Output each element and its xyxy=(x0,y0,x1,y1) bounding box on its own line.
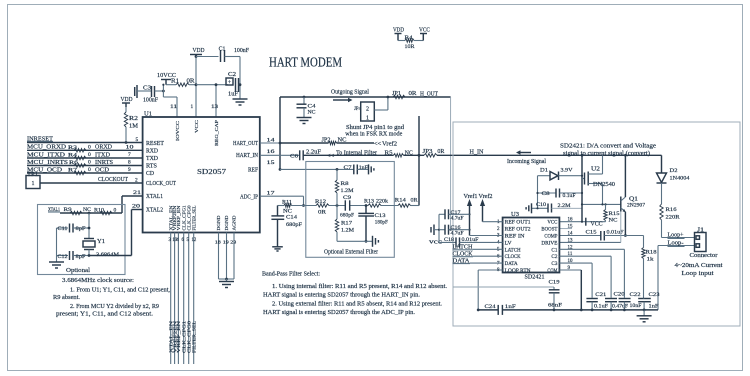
svg-text:SD2421: SD2421 xyxy=(525,275,545,281)
svg-text:Loop-: Loop- xyxy=(668,240,684,246)
wire REF row xyxy=(280,168,354,170)
svg-text:HART_IN: HART_IN xyxy=(236,153,259,159)
svg-text:100nF: 100nF xyxy=(234,48,250,54)
svg-text:Outgoing Signal: Outgoing Signal xyxy=(331,89,369,96)
svg-text:220R: 220R xyxy=(666,215,680,221)
resistor R17 1.2M xyxy=(335,206,354,242)
capacitor C1 100nF xyxy=(196,47,250,63)
op-amp U1 SD2057 (modem IC) xyxy=(143,117,260,233)
svg-text:VDD: VDD xyxy=(193,47,205,54)
svg-text:0R: 0R xyxy=(411,198,418,204)
svg-text:680pF: 680pF xyxy=(340,213,354,219)
svg-text:3.6864MHz clock source:: 3.6864MHz clock source: xyxy=(62,277,134,284)
jumper JP4 xyxy=(354,102,374,122)
svg-text:CLOCK_OUT: CLOCK_OUT xyxy=(146,181,176,187)
svg-text:10R: 10R xyxy=(405,44,415,50)
svg-text:7: 7 xyxy=(128,152,131,158)
svg-text:C24: C24 xyxy=(485,304,496,310)
svg-text:JP1: JP1 xyxy=(392,91,401,97)
wire 10VCC node to U1 pin IOVCC xyxy=(162,84,177,117)
resistor R12 0R xyxy=(315,199,329,216)
svg-text:RTS: RTS xyxy=(146,164,157,170)
svg-text:AGND: AGND xyxy=(232,216,237,231)
power flag VDD (main) xyxy=(190,47,205,57)
resistor R4 0 xyxy=(68,152,91,160)
svg-text:INRTS: INRTS xyxy=(95,159,113,166)
capacitor C11 8pF xyxy=(57,224,91,233)
node LATCH xyxy=(453,245,503,251)
wire pin9 COM column xyxy=(559,270,582,311)
svg-text:13: 13 xyxy=(568,238,574,243)
capacitor C8 0.1uF xyxy=(536,189,583,200)
capacitor C16 4.7uF xyxy=(439,225,470,237)
svg-text:8: 8 xyxy=(128,160,131,166)
svg-text:C2: C2 xyxy=(228,72,236,78)
resistor R13 220k xyxy=(364,199,388,208)
svg-text:CLOCKOUT: CLOCKOUT xyxy=(98,176,128,183)
svg-text:XTAL1: XTAL1 xyxy=(146,194,163,200)
svg-text:68nF: 68nF xyxy=(548,303,562,309)
svg-text:RXD: RXD xyxy=(146,148,158,154)
svg-text:C15: C15 xyxy=(586,230,597,236)
svg-text:2.2uF: 2.2uF xyxy=(306,149,322,155)
svg-text:C20: C20 xyxy=(614,292,625,298)
svg-text:R18: R18 xyxy=(646,250,657,256)
svg-text:C3: C3 xyxy=(551,261,557,267)
wire BOOST stub xyxy=(559,228,572,230)
svg-text:COMP: COMP xyxy=(544,234,557,240)
svg-text:0R: 0R xyxy=(437,149,444,155)
capacitor C2 1uF (polarized) xyxy=(226,72,241,98)
diode D2 1N4004 xyxy=(657,155,690,204)
capacitor C10 2.2M xyxy=(532,202,583,213)
svg-text:JP3: JP3 xyxy=(423,149,433,155)
svg-text:R2: R2 xyxy=(129,116,138,122)
crystal Y1 3.6864M xyxy=(83,213,119,258)
svg-text:1M: 1M xyxy=(129,124,138,130)
power flag 10VCC xyxy=(157,72,176,85)
capacitor C3 100nF xyxy=(135,85,165,104)
node DATA xyxy=(453,258,503,264)
note band-pass filter select xyxy=(262,271,447,317)
svg-text:FILTER_SEL: FILTER_SEL xyxy=(191,321,196,353)
svg-text:signal to current signal (conv: signal to current signal (convert) xyxy=(563,150,650,157)
svg-text:REF OUT2: REF OUT2 xyxy=(505,227,531,233)
wire decoupling ground column xyxy=(239,57,241,100)
svg-text:0R: 0R xyxy=(187,79,195,85)
svg-text:HART signal is entering SD2057: HART signal is entering SD2057 through t… xyxy=(263,292,420,299)
svg-text:12: 12 xyxy=(192,238,197,243)
svg-text:C8: C8 xyxy=(542,191,550,197)
resistor R18 1k xyxy=(642,236,657,299)
node XTAL1 (net label) xyxy=(48,207,60,213)
svg-text:MCU_ORXD: MCU_ORXD xyxy=(27,144,66,151)
node CLOCK xyxy=(453,252,503,258)
svg-text:16: 16 xyxy=(568,218,574,223)
svg-text:R9: R9 xyxy=(64,207,72,213)
svg-text:C1: C1 xyxy=(551,247,557,253)
svg-text:C23: C23 xyxy=(649,292,660,298)
svg-text:Loop+: Loop+ xyxy=(668,232,684,238)
svg-text:LV: LV xyxy=(505,240,512,246)
ground (C14) xyxy=(272,247,283,251)
ground (C4) xyxy=(297,118,312,124)
capacitor C12 8pF xyxy=(57,251,91,260)
resistor JP3 0R xyxy=(423,149,445,157)
zener diode D1 3.9V xyxy=(538,168,583,180)
svg-text:Incoming Signal: Incoming Signal xyxy=(507,158,546,165)
svg-text:R12: R12 xyxy=(315,199,326,205)
svg-text:0.01uF: 0.01uF xyxy=(462,237,479,243)
node Loop- xyxy=(658,240,695,310)
svg-text:REG_CAP: REG_CAP xyxy=(214,119,219,146)
svg-text:1: 1 xyxy=(366,116,369,122)
svg-text:C6: C6 xyxy=(290,154,298,160)
note D/A converter xyxy=(560,143,656,157)
svg-text:IOVCC: IOVCC xyxy=(175,121,180,141)
wire R17 bottom to ground xyxy=(337,240,373,242)
node Vref1 xyxy=(464,193,503,236)
svg-text:ITXD: ITXD xyxy=(95,151,110,158)
power flag VCC (right) xyxy=(419,27,430,41)
wire crystal gnd column xyxy=(56,228,58,262)
svg-text:VDD: VDD xyxy=(121,96,133,103)
label Connector xyxy=(675,253,723,277)
svg-text:C18: C18 xyxy=(444,237,454,243)
note shunt JP4 xyxy=(345,125,404,138)
svg-text:NC: NC xyxy=(283,208,292,214)
resistor R8 1.2M xyxy=(335,168,353,206)
svg-text:0.47uF: 0.47uF xyxy=(612,304,628,310)
svg-text:Connector: Connector xyxy=(690,253,718,259)
svg-text:2. From MCU Y2 divided by x2,: 2. From MCU Y2 divided by x2, R9 xyxy=(70,303,159,310)
svg-text:C3: C3 xyxy=(143,86,151,92)
ground (C7, sideways) xyxy=(369,164,374,174)
svg-text:17: 17 xyxy=(267,190,275,196)
svg-text:3.9V: 3.9V xyxy=(561,168,573,174)
svg-text:HART_OUT: HART_OUT xyxy=(233,141,258,147)
svg-text:U3: U3 xyxy=(511,212,519,218)
wire R18 to C23 xyxy=(643,297,646,299)
label Outgoing Signal xyxy=(331,89,369,103)
svg-text:U1: U1 xyxy=(144,112,152,118)
svg-text:REF IN: REF IN xyxy=(505,234,525,240)
svg-text:when in FSK RX mode: when in FSK RX mode xyxy=(345,131,402,137)
resistor JP2 NC xyxy=(280,137,374,144)
svg-text:220k: 220k xyxy=(376,199,388,205)
svg-text:C11: C11 xyxy=(58,226,68,232)
svg-text:NC: NC xyxy=(405,150,413,156)
capacitor C19 68nF xyxy=(453,280,562,312)
svg-text:10nF: 10nF xyxy=(630,303,642,309)
svg-text:15: 15 xyxy=(568,225,574,230)
svg-text:1: 1 xyxy=(191,104,194,110)
svg-text:C22: C22 xyxy=(630,292,641,298)
svg-text:2N2907: 2N2907 xyxy=(627,203,645,209)
svg-text:C14: C14 xyxy=(286,215,297,221)
svg-text:2: 2 xyxy=(135,177,138,183)
wire MCU_INRTS row xyxy=(27,165,143,167)
svg-text:H_OUT: H_OUT xyxy=(420,91,438,98)
svg-text:C12: C12 xyxy=(58,254,68,260)
svg-text:VDD: VDD xyxy=(393,27,404,34)
svg-text:MCU_ITXD: MCU_ITXD xyxy=(27,151,66,158)
svg-text:0: 0 xyxy=(88,152,91,158)
svg-text:<<: << xyxy=(327,152,335,159)
svg-text:15: 15 xyxy=(267,160,275,166)
svg-text:R9 absent.: R9 absent. xyxy=(53,294,80,301)
wire JP4 pin2 to line xyxy=(374,96,389,110)
svg-text:FILTER_SEL: FILTER_SEL xyxy=(191,205,196,230)
svg-text:180pF: 180pF xyxy=(375,220,388,226)
svg-text:HART signal is entering SD2057: HART signal is entering SD2057 through t… xyxy=(263,309,415,316)
capacitor C4 NC xyxy=(297,96,316,118)
svg-text:R16: R16 xyxy=(666,207,677,213)
ground (bus) xyxy=(637,310,652,322)
ground (C10, sideways left) xyxy=(526,203,531,213)
svg-text:R13: R13 xyxy=(364,199,374,205)
capacitor C20 0.47uF xyxy=(605,292,628,312)
wire LOOP RTN xyxy=(477,270,503,311)
wire zener column xyxy=(537,176,539,209)
svg-text:2. Using external filter: R11: 2. Using external filter: R11 and R5 abs… xyxy=(272,301,442,308)
wire crystal bottom row xyxy=(89,255,132,257)
svg-text:R3: R3 xyxy=(68,145,77,151)
connector J1 xyxy=(695,228,707,252)
wire outgoing signal line xyxy=(280,96,451,98)
svg-text:R6: R6 xyxy=(69,160,78,166)
wire crystal top row xyxy=(60,212,122,214)
optional external filter box xyxy=(306,162,395,258)
resistor R3 0 xyxy=(68,144,91,152)
resistor R14 0R xyxy=(395,198,418,208)
capacitor C6 2.2uF xyxy=(290,149,322,160)
wire XTAL_EN xyxy=(170,233,172,365)
node Vref2 (arrow) xyxy=(374,140,397,147)
test point TP1 xyxy=(26,171,40,189)
node Vref2 xyxy=(479,193,503,222)
svg-text:R14: R14 xyxy=(395,198,406,204)
svg-text:C21: C21 xyxy=(595,292,606,298)
wire pin10 column xyxy=(559,263,592,298)
svg-text:SD2057: SD2057 xyxy=(197,168,227,176)
svg-text:8pF: 8pF xyxy=(76,226,86,232)
svg-text:D1: D1 xyxy=(540,168,548,174)
svg-text:Q1: Q1 xyxy=(629,196,638,202)
svg-text:13: 13 xyxy=(211,104,219,110)
svg-text:To Internal Filter: To Internal Filter xyxy=(336,149,378,156)
svg-text:RESET: RESET xyxy=(146,141,164,147)
wire VREF_EN xyxy=(177,233,179,365)
svg-text:NC: NC xyxy=(308,110,316,116)
svg-text:Y1: Y1 xyxy=(97,239,105,245)
capacitor C18 0.01uF xyxy=(439,237,503,247)
resistor R16 220R xyxy=(660,204,680,238)
svg-text:JP2: JP2 xyxy=(322,137,331,143)
wire MCU_ITXD row xyxy=(27,157,143,159)
svg-text:SD2421: D/A convert and Voltag: SD2421: D/A convert and Voltage xyxy=(560,143,656,150)
label Incoming Signal xyxy=(507,150,546,165)
ground (C1/C2) xyxy=(233,99,248,105)
svg-text:Loop input: Loop input xyxy=(682,271,714,277)
node Loop+ xyxy=(662,232,695,238)
resistor R1 0R xyxy=(166,79,197,87)
svg-text:VCC: VCC xyxy=(547,220,557,226)
wire DGND pins xyxy=(219,233,235,281)
capacitor C15 0.01uF xyxy=(559,230,643,241)
svg-text:DGND: DGND xyxy=(224,216,229,231)
ground (crystal) xyxy=(49,262,64,268)
svg-text:16: 16 xyxy=(267,149,275,155)
capacitor C9 680pF (series) xyxy=(340,195,354,219)
svg-text:R10: R10 xyxy=(94,207,104,213)
wire VCC node column xyxy=(438,214,440,242)
svg-text:R4: R4 xyxy=(68,153,77,159)
big section box xyxy=(453,122,740,326)
junction R8/R17 node xyxy=(336,204,339,207)
wire HART_OUT to outgoing line xyxy=(260,97,282,171)
power flag VCC (U3 left) xyxy=(429,225,442,246)
svg-text:4.7uF: 4.7uF xyxy=(451,231,464,237)
wire filter center row xyxy=(278,205,420,207)
svg-text:present; Y1, C11, and C12 abse: present; Y1, C11, and C12 absent. xyxy=(56,311,153,318)
ground (digital) xyxy=(219,279,234,288)
svg-text:0: 0 xyxy=(88,144,91,150)
wire VREF2EN xyxy=(174,233,176,365)
svg-text:BOOST: BOOST xyxy=(541,227,558,233)
svg-text:LOOP RTN: LOOP RTN xyxy=(505,268,531,274)
svg-text:5: 5 xyxy=(136,137,139,143)
svg-text:COM: COM xyxy=(547,268,557,274)
power flag VDD (right) xyxy=(393,27,404,41)
svg-text:R4: R4 xyxy=(405,35,413,41)
svg-text:C13: C13 xyxy=(375,213,386,219)
svg-text:REF: REF xyxy=(248,168,259,174)
wire XTAL2 xyxy=(132,210,143,256)
svg-text:NC: NC xyxy=(609,218,618,224)
svg-text:U2: U2 xyxy=(591,166,600,172)
resistor R10 0 xyxy=(94,207,117,214)
wire XTAL1 xyxy=(122,196,143,213)
node INRESET xyxy=(27,135,143,142)
svg-text:R7: R7 xyxy=(68,168,77,174)
svg-text:0: 0 xyxy=(88,167,91,173)
capacitor C13 180pF xyxy=(358,206,388,243)
svg-text:C2: C2 xyxy=(551,254,557,260)
wire ADC_IP xyxy=(260,196,305,207)
svg-text:TXD: TXD xyxy=(146,156,158,162)
resistor R5 NC xyxy=(385,150,413,157)
svg-text:8pF: 8pF xyxy=(76,254,86,260)
svg-text:DRIVE: DRIVE xyxy=(541,240,558,246)
svg-text:1nF: 1nF xyxy=(359,165,368,171)
transistor Q1 2N2907 xyxy=(621,155,645,237)
resistor R9 NC xyxy=(64,207,92,215)
wire VDD column to U1 pin VCC xyxy=(195,55,198,117)
svg-text:C19: C19 xyxy=(549,280,560,286)
svg-text:VREF_EN: VREF_EN xyxy=(176,204,181,230)
svg-text:CLOCK: CLOCK xyxy=(505,254,521,260)
power flag VDD (reset pullup) xyxy=(121,96,133,107)
ground (filter, sideways) xyxy=(373,236,379,247)
svg-text:Vref2: Vref2 xyxy=(382,140,397,147)
svg-text:R8: R8 xyxy=(341,181,349,187)
optional crystal box xyxy=(38,205,126,275)
junction crystal top xyxy=(88,212,91,215)
svg-text:1.2M: 1.2M xyxy=(341,188,354,194)
capacitor C21 0.1uF xyxy=(586,292,608,311)
capacitor C24 1nF (series on bus) xyxy=(485,304,516,315)
svg-text:R15: R15 xyxy=(609,211,620,217)
svg-text:0.1uF: 0.1uF xyxy=(563,193,576,199)
wire CLK_CFG0 xyxy=(188,233,190,365)
wire H_IN main line xyxy=(303,154,661,157)
wire filter output column xyxy=(418,116,421,206)
capacitor C22 10nF xyxy=(619,292,642,311)
svg-text:1.2M: 1.2M xyxy=(341,228,354,234)
svg-text:DATA: DATA xyxy=(505,261,518,267)
wire HART_IN stub xyxy=(260,154,300,156)
svg-text:1uF: 1uF xyxy=(228,92,239,98)
resistor R15 NC xyxy=(604,204,620,223)
svg-text:ADC_IP: ADC_IP xyxy=(240,194,258,200)
capacitor C14 680pF xyxy=(271,206,302,247)
svg-text:0.1uF: 0.1uF xyxy=(594,304,608,310)
capacitor C23 1nF xyxy=(638,292,660,311)
wire FILTER_SEL xyxy=(193,233,195,365)
svg-text:100nF: 100nF xyxy=(143,98,159,104)
resistor R11 NC xyxy=(282,200,292,215)
svg-text:DN2540: DN2540 xyxy=(593,182,615,188)
wire DRIVE to Q1 base xyxy=(559,212,620,243)
svg-text:ORXD: ORXD xyxy=(95,144,112,151)
svg-text:C9: C9 xyxy=(343,195,351,201)
wire pin12 column xyxy=(559,249,624,297)
svg-text:Vref2: Vref2 xyxy=(479,193,493,200)
resistor R2 1M xyxy=(124,107,138,144)
svg-text:Vref1: Vref1 xyxy=(464,193,478,200)
svg-text:2: 2 xyxy=(366,107,369,113)
svg-text:11: 11 xyxy=(170,104,178,110)
svg-text:0R: 0R xyxy=(409,91,417,97)
svg-text:REF OUT1: REF OUT1 xyxy=(505,220,531,226)
svg-text:VCC: VCC xyxy=(419,27,430,34)
wire gate/base row xyxy=(581,203,621,205)
resistor R7 0 xyxy=(68,167,91,175)
wire pin11 column xyxy=(559,256,611,298)
svg-text:4~20mA Current: 4~20mA Current xyxy=(675,263,723,269)
svg-text:Shunt JP4 pin1 to gnd: Shunt JP4 pin1 to gnd xyxy=(346,125,404,131)
svg-text:VREF_EN: VREF_EN xyxy=(176,320,181,353)
svg-text:0R: 0R xyxy=(318,210,326,216)
wire rail to REG_CAP pin xyxy=(196,83,228,117)
svg-text:XTAL2: XTAL2 xyxy=(146,208,163,214)
svg-text:9: 9 xyxy=(128,167,131,173)
svg-text:NC: NC xyxy=(338,137,347,143)
svg-text:680pF: 680pF xyxy=(286,222,302,228)
wire ground bus xyxy=(478,309,658,311)
svg-text:14: 14 xyxy=(568,232,574,237)
svg-text:CD: CD xyxy=(146,171,154,177)
op-amp U3 SD2421 (loop DAC) xyxy=(503,218,560,273)
wire MCU_OCD row xyxy=(27,172,143,174)
svg-text:R17: R17 xyxy=(341,221,352,227)
svg-text:R1: R1 xyxy=(171,79,179,85)
svg-text:1. Using internal filter: R11: 1. Using internal filter: R11 and R5 pre… xyxy=(272,283,447,290)
svg-text:MCU_INRTS: MCU_INRTS xyxy=(27,159,69,166)
transistor U2 DN2540 (MOSFET) xyxy=(581,155,615,221)
wire MCU_ORXD row xyxy=(27,149,143,151)
